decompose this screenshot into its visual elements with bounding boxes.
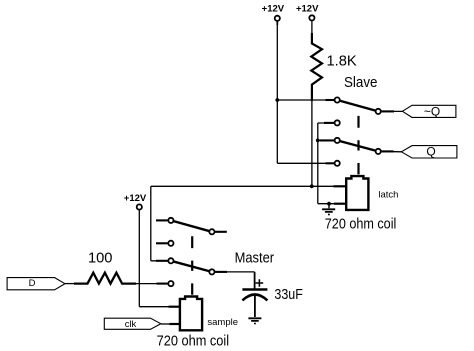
- ground (capacitor): [248, 318, 261, 321]
- switch arm 2 (slave relay): [337, 140, 378, 151]
- capacitor C1 top plate: [242, 288, 267, 291]
- output tag Q: [401, 146, 457, 158]
- contact: slave row2: [335, 120, 340, 125]
- capacitor C1 curved plate: [242, 295, 267, 301]
- junction: slave row3 on ground vertical: [316, 139, 320, 143]
- wire: capacitor top vertical: [254, 272, 256, 289]
- svg-text:+12V: +12V: [262, 4, 285, 15]
- contact: master row1: [168, 218, 173, 223]
- thick stub: slave row3 contact: [320, 139, 337, 141]
- thick stub: master arm1 right contact (floating): [212, 231, 227, 233]
- thick stub: master arm2 right contact: [212, 271, 227, 273]
- wire: clk tag tip to sample coil bottom lead: [161, 323, 170, 325]
- wire: master +12V rail to sample coil top lead: [139, 306, 168, 308]
- wire: rail to slave contact row1: [277, 99, 337, 101]
- wire: stub to slave contact row3: [318, 139, 337, 141]
- wire: resistor R1 bottom lead down to junction: [311, 100, 313, 186]
- svg-text:Master: Master: [235, 251, 275, 267]
- contact: master arm1 throw: [209, 229, 214, 234]
- switch arm 2 (master relay): [171, 261, 212, 272]
- svg-text:720 ohm coil: 720 ohm coil: [157, 333, 230, 349]
- thick stub: master row1 contact (floating): [156, 219, 171, 221]
- svg-text:+12V: +12V: [124, 193, 147, 204]
- junction: resistor bottom on long node: [310, 184, 314, 188]
- capacitor C1 33uF plus sign: [256, 279, 264, 287]
- wire: master row3 vertical drop: [150, 186, 152, 260]
- wire: resistor to master contact row4: [136, 283, 171, 285]
- output tag ~Q: [402, 105, 456, 117]
- thick stub: slave row4 contact: [326, 162, 338, 164]
- svg-text:clk: clk: [125, 319, 137, 330]
- switch arm 1 (master relay): [171, 220, 212, 231]
- thick stub: master row2 contact (floating): [156, 242, 171, 244]
- svg-text:Slave: Slave: [344, 75, 378, 91]
- thick lead: sample coil plus lead: [169, 306, 180, 308]
- contact: master row4: [168, 281, 173, 286]
- mechanical linkage (master relay, dashed): [191, 236, 193, 294]
- switch arm 1 (slave relay): [337, 100, 378, 111]
- contact: slave arm1 throw: [376, 109, 381, 114]
- junction: slave rail to row1: [275, 98, 279, 102]
- wire: coil-bottom / ground horizontal to latch coil: [318, 203, 346, 205]
- input tag clk: [104, 318, 161, 329]
- thick lead: latch coil minus lead: [334, 203, 346, 205]
- relay coil U1 (sample): [180, 297, 202, 331]
- wire: master arm2 contact to capacitor corner: [212, 271, 255, 273]
- wire: D tag tip to resistor: [65, 283, 75, 285]
- svg-text:1.8K: 1.8K: [327, 54, 357, 70]
- wire: master row3 horizontal stub: [151, 260, 171, 262]
- contact: master arm2 throw: [209, 269, 214, 274]
- resistor R1 1.8K: [311, 21, 313, 35]
- contact: slave arm2 throw: [376, 149, 381, 154]
- wire: stub to slave contact row2: [318, 122, 337, 124]
- svg-text:latch: latch: [378, 189, 398, 200]
- wire: long horizontal node (latch coil + / resistor bottom / master row3): [151, 185, 346, 187]
- svg-text:33uF: 33uF: [274, 287, 303, 303]
- contact: slave row1: [335, 97, 340, 102]
- wire: rail corner to slave contact row4: [277, 162, 337, 164]
- thick stub: slave row1 contact: [326, 99, 338, 101]
- thick stub: slave row2 contact: [324, 122, 337, 124]
- wire: slave arm1 contact to ~Q tag: [378, 110, 402, 112]
- thick stub: master row4 contact: [157, 283, 171, 285]
- thick stub: slave arm1 right contact to wire: [378, 110, 394, 112]
- junction: latch ground node: [327, 202, 331, 206]
- wire: master +12V rail vertical (T3 down): [138, 210, 140, 307]
- wire: capacitor to ground: [254, 295, 256, 317]
- contact: master row2: [168, 241, 173, 246]
- svg-text:~Q: ~Q: [424, 104, 440, 118]
- wire: slave arm2 contact to Q tag: [378, 150, 402, 152]
- svg-text:100: 100: [88, 250, 113, 266]
- thick stub: slave arm2 right contact to wire: [378, 150, 393, 152]
- resistor R2 100: [74, 273, 136, 284]
- svg-text:Q: Q: [426, 145, 435, 159]
- mechanical linkage (slave relay, dashed): [357, 116, 359, 174]
- svg-text:+12V: +12V: [296, 4, 319, 15]
- svg-text:720 ohm coil: 720 ohm coil: [325, 217, 397, 233]
- svg-text:sample: sample: [207, 317, 238, 328]
- contact: slave row3: [335, 138, 340, 143]
- thick stub: master row3 contact: [156, 260, 171, 262]
- wire: slave ground vertical (row2/row3 down to coil bottom): [317, 123, 319, 204]
- wire: slave +12V rail vertical (T1 down to row4 corner): [276, 21, 278, 164]
- contact: master row3: [168, 258, 173, 263]
- ground (latch coil): [328, 204, 330, 209]
- thick lead: sample coil minus lead: [170, 323, 180, 325]
- thick lead: latch coil plus lead: [334, 185, 347, 187]
- wire: rail nub under T1: [276, 21, 278, 26]
- svg-text:D: D: [29, 278, 36, 289]
- contact: slave row4: [335, 161, 340, 166]
- input tag D: [7, 278, 65, 290]
- relay coil U2 (latch): [346, 176, 368, 210]
